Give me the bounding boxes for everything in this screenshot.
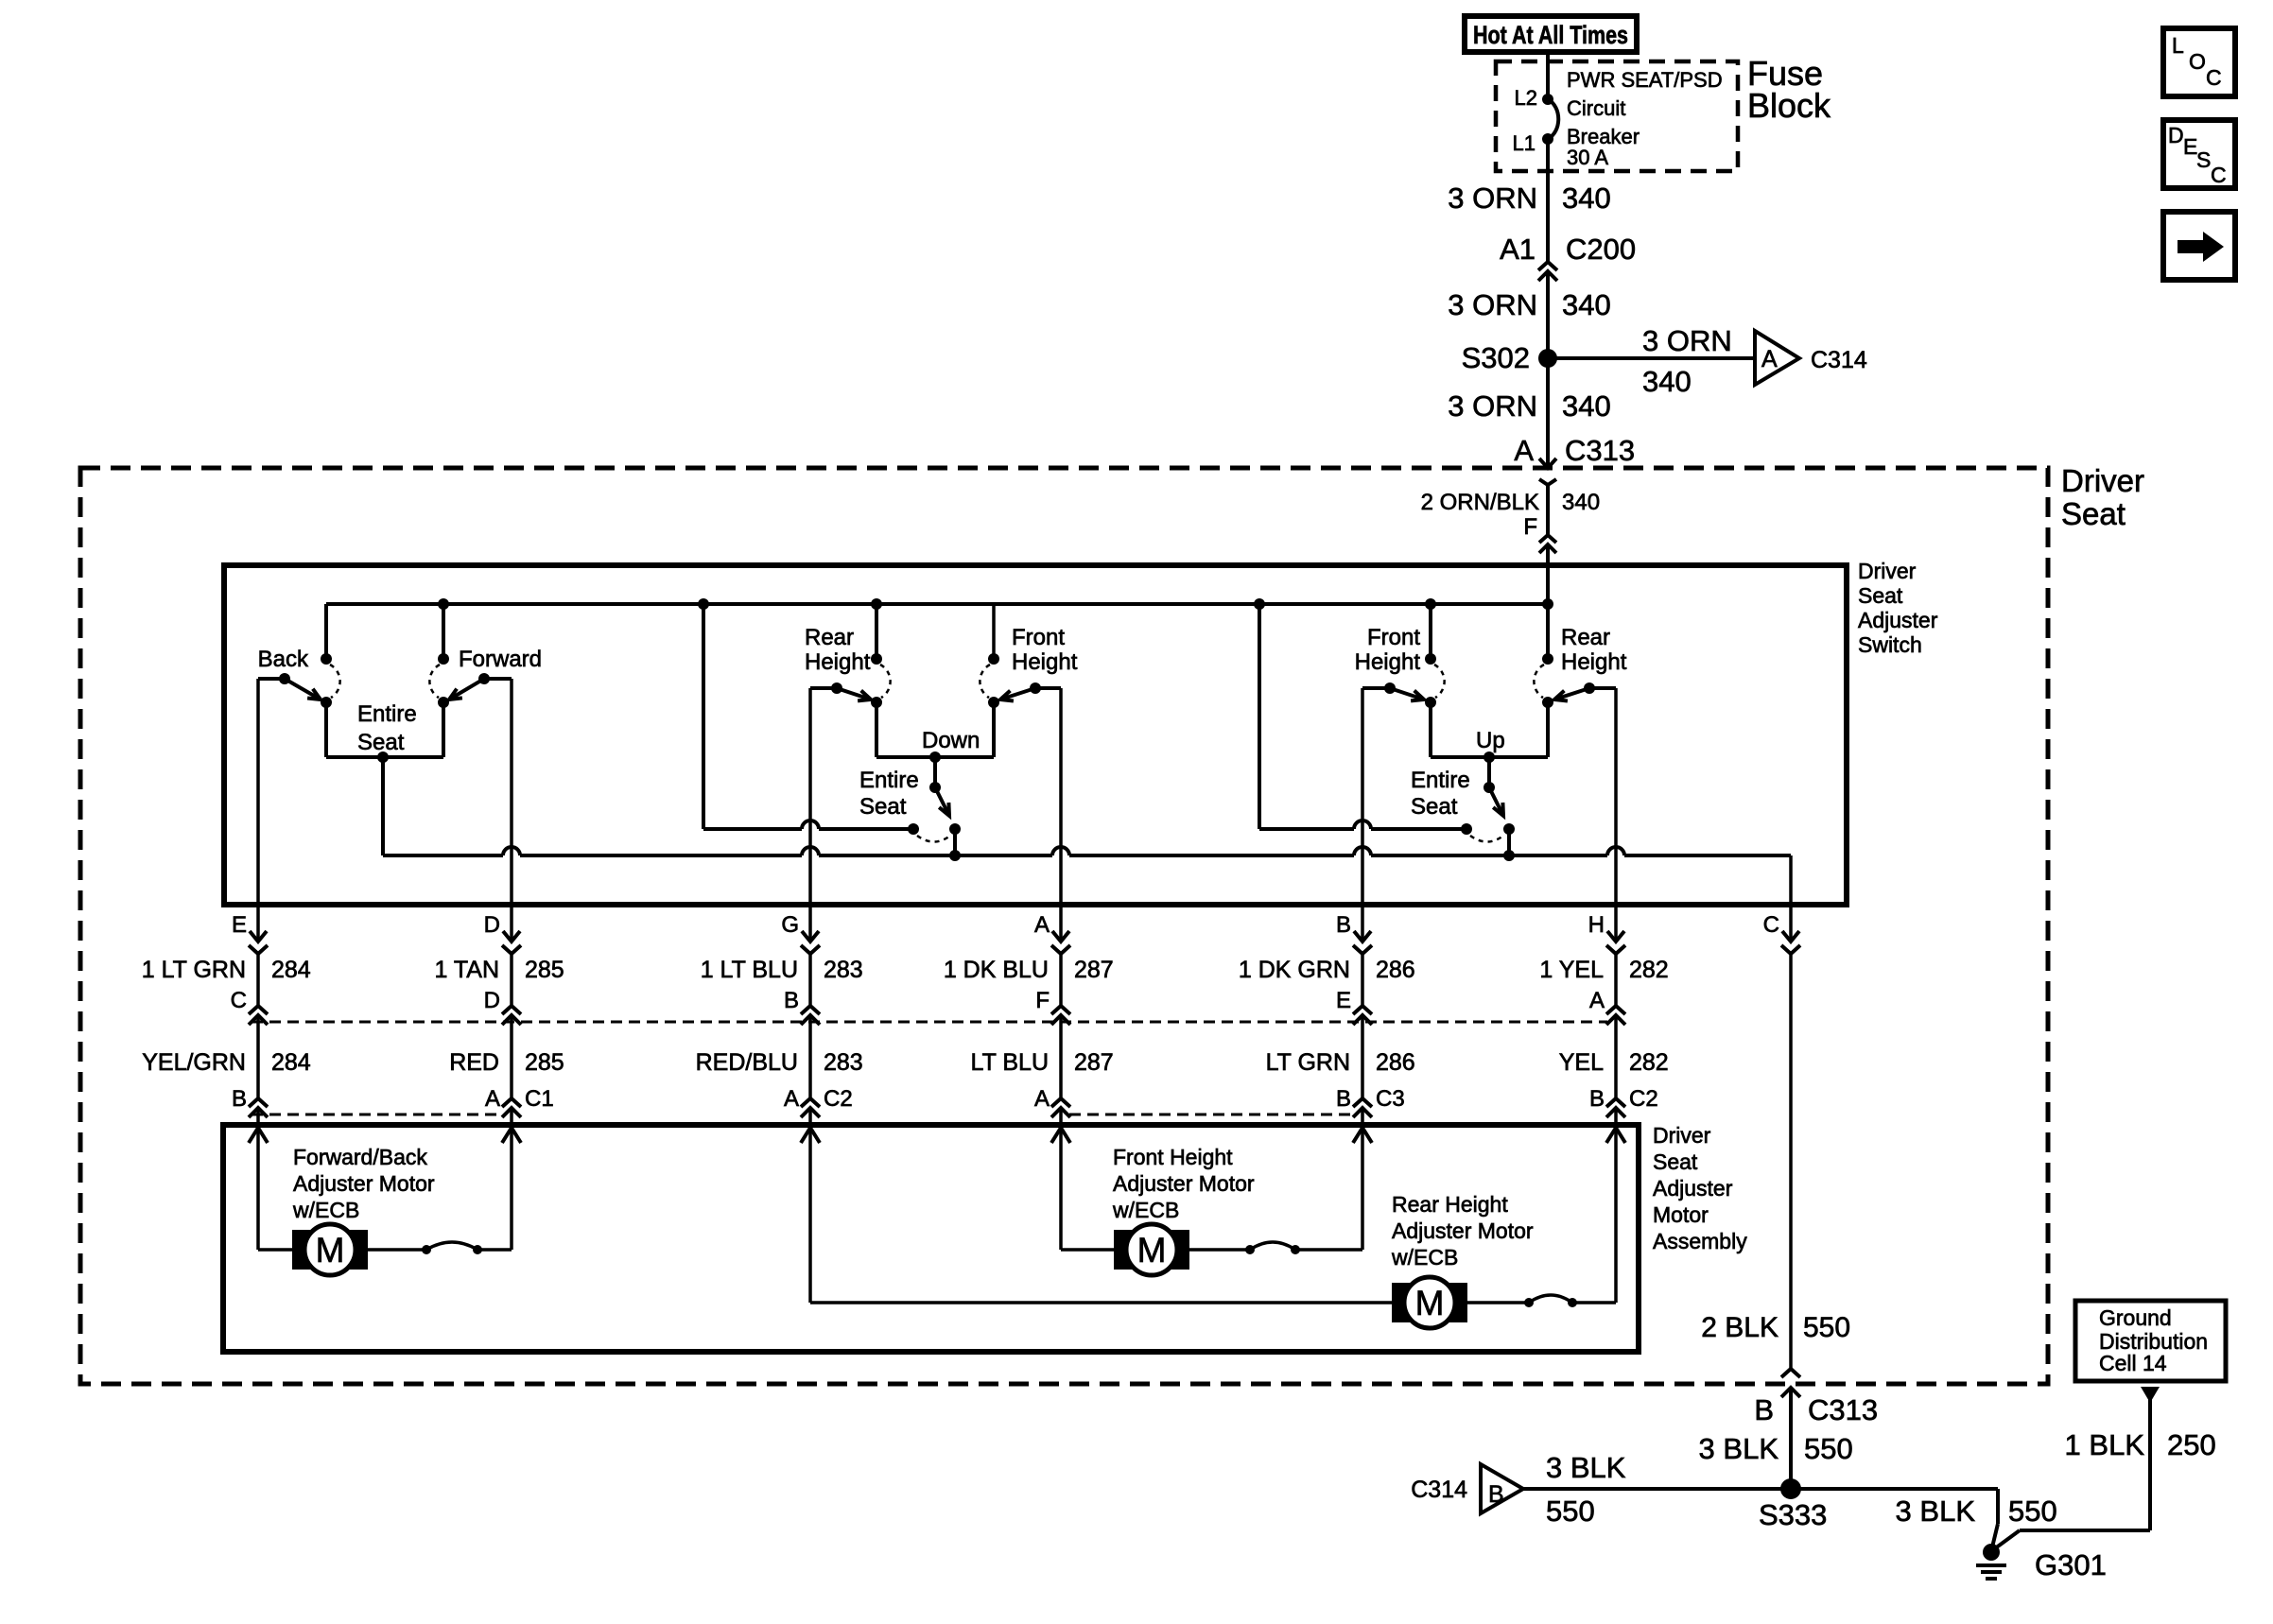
svg-text:A: A xyxy=(1589,988,1605,1013)
Forward switch upper contact xyxy=(438,653,449,665)
svg-text:Ground: Ground xyxy=(2099,1305,2172,1330)
svg-text:3 BLK: 3 BLK xyxy=(1699,1432,1779,1465)
svg-text:3 ORN: 3 ORN xyxy=(1448,389,1537,423)
svg-text:Rear: Rear xyxy=(805,625,854,650)
Rear Height lower contact (group 3) xyxy=(1542,697,1553,708)
svg-text:F: F xyxy=(1035,988,1050,1013)
motor M2 front height adjuster xyxy=(1061,1248,1114,1252)
group 2 feed drop wire xyxy=(702,604,705,829)
svg-text:340: 340 xyxy=(1562,288,1611,321)
svg-text:Assembly: Assembly xyxy=(1653,1229,1747,1253)
wire 1 BLK 250 to ground G301 xyxy=(2148,1387,2152,1530)
Ground Distribution Cell 14 box xyxy=(2075,1301,2226,1381)
svg-text:550: 550 xyxy=(1803,1312,1850,1343)
Entire Seat switch (group 3) xyxy=(1487,757,1491,787)
wire S333 to ground G301 xyxy=(1791,1487,1998,1491)
Rear Height pivot (group 3) xyxy=(1584,682,1595,694)
svg-text:B: B xyxy=(1589,1086,1605,1112)
Rear Height upper contact xyxy=(871,653,882,665)
svg-text:Block: Block xyxy=(1747,86,1831,125)
wire motor M2 to ECB xyxy=(1189,1248,1250,1252)
svg-text:286: 286 xyxy=(1376,1049,1415,1076)
wire 1 DK BLU 287 from switch pin A xyxy=(1059,688,1063,942)
svg-text:282: 282 xyxy=(1629,957,1669,983)
svg-text:340: 340 xyxy=(1562,490,1600,515)
svg-text:B: B xyxy=(1336,912,1351,938)
group 2 entire-seat contact wire with hop over G wire xyxy=(703,827,802,831)
svg-text:Driver: Driver xyxy=(2061,463,2144,498)
motor assembly in-line connector dashed line C1 xyxy=(252,1114,503,1116)
svg-text:Front Height: Front Height xyxy=(1113,1145,1233,1169)
svg-text:A1: A1 xyxy=(1500,233,1536,266)
svg-text:Height: Height xyxy=(1012,649,1078,675)
svg-text:H: H xyxy=(1588,912,1605,938)
svg-text:Cell 14: Cell 14 xyxy=(2099,1351,2167,1375)
svg-text:Down: Down xyxy=(922,728,980,753)
svg-text:A: A xyxy=(485,1086,500,1112)
wire C200 to splice S302 xyxy=(1546,271,1550,358)
LOC reference box xyxy=(2163,28,2235,96)
svg-text:Front: Front xyxy=(1012,625,1065,650)
return bus junction nodes xyxy=(949,850,961,861)
svg-text:250: 250 xyxy=(2167,1428,2216,1461)
wire pin F into switch xyxy=(1546,544,1550,659)
motor assembly entry arrow pin B xyxy=(249,1128,268,1143)
switch supply bus xyxy=(326,602,1548,606)
Rear Height pivot xyxy=(831,682,842,694)
svg-text:285: 285 xyxy=(525,1049,564,1076)
svg-text:Entire: Entire xyxy=(859,768,919,793)
svg-text:w/ECB: w/ECB xyxy=(292,1198,359,1222)
Entire Seat fixed contact (group 3) xyxy=(1461,823,1472,835)
svg-text:Height: Height xyxy=(1561,649,1627,675)
common tap wire to return bus (group 1) xyxy=(381,757,385,855)
ECB circuit breaker M2 xyxy=(1245,1245,1255,1254)
svg-text:3 BLK: 3 BLK xyxy=(1896,1494,1976,1528)
svg-text:C2: C2 xyxy=(1629,1086,1658,1112)
svg-text:283: 283 xyxy=(824,1049,863,1076)
svg-text:D: D xyxy=(484,988,500,1013)
svg-text:B: B xyxy=(1754,1393,1774,1426)
svg-text:C2: C2 xyxy=(824,1086,853,1112)
svg-text:B: B xyxy=(784,988,799,1013)
svg-text:w/ECB: w/ECB xyxy=(1112,1198,1179,1222)
svg-text:Motor: Motor xyxy=(1653,1202,1709,1227)
ECB circuit breaker M1 xyxy=(422,1245,431,1254)
svg-text:286: 286 xyxy=(1376,957,1415,983)
Front Height pivot (group 3) xyxy=(1384,682,1396,694)
Rear Height dashed travel arc xyxy=(880,665,891,698)
svg-text:287: 287 xyxy=(1074,1049,1114,1076)
Rear Height switch arm xyxy=(837,688,871,700)
svg-text:Driver: Driver xyxy=(1858,559,1917,583)
svg-text:Height: Height xyxy=(1355,649,1421,675)
Entire Seat dashed travel arc (group 3) xyxy=(1470,836,1503,842)
svg-text:550: 550 xyxy=(2008,1494,2057,1528)
svg-text:M: M xyxy=(1137,1231,1167,1270)
Rear Height upper contact (group 3) xyxy=(1542,653,1553,665)
svg-text:L1: L1 xyxy=(1513,131,1536,155)
connector C314 pin A (off-page triangle) xyxy=(1755,331,1799,385)
svg-text:A: A xyxy=(784,1086,799,1112)
connector C314 pin B (off-page triangle) xyxy=(1481,1464,1523,1513)
wire ECB M2 to pin B C3 xyxy=(1295,1248,1362,1252)
svg-text:Adjuster: Adjuster xyxy=(1653,1176,1733,1201)
Back switch lower contact xyxy=(321,697,332,708)
svg-text:284: 284 xyxy=(271,957,311,983)
wire motor M3 to ECB xyxy=(1467,1301,1529,1304)
motor assembly in-line connector dashed line C3 xyxy=(1069,1114,1354,1116)
svg-text:A: A xyxy=(1514,434,1534,467)
Front Height dashed travel arc xyxy=(980,665,990,698)
group 3 feed drop wire xyxy=(1258,604,1261,829)
svg-text:L: L xyxy=(2172,33,2184,58)
svg-text:O: O xyxy=(2189,49,2206,74)
svg-text:Rear: Rear xyxy=(1561,625,1610,650)
Forward switch arm xyxy=(449,679,484,700)
svg-text:340: 340 xyxy=(1642,365,1692,398)
wire pin A C2 to motor M3 xyxy=(810,1301,1392,1304)
arrow from Ground Distribution box xyxy=(2141,1387,2160,1403)
Back switch dashed travel arc xyxy=(330,665,340,698)
Back switch arm xyxy=(285,679,321,700)
svg-text:S333: S333 xyxy=(1759,1498,1827,1531)
svg-text:C314: C314 xyxy=(1411,1477,1467,1503)
power source box "Hot At All Times" xyxy=(1465,16,1637,52)
wire 1 TAN 285 from switch pin D xyxy=(510,679,513,942)
svg-text:Seat: Seat xyxy=(1653,1149,1698,1174)
next-page arrow box xyxy=(2163,212,2235,280)
fuse block dashed box xyxy=(1496,61,1738,171)
wire 1 YEL 282 from switch pin H xyxy=(1614,688,1618,942)
svg-text:C: C xyxy=(1763,912,1779,938)
svg-text:S302: S302 xyxy=(1462,341,1530,374)
Front Height lower contact (group 3) xyxy=(1425,697,1436,708)
svg-text:Driver: Driver xyxy=(1653,1123,1711,1148)
Driver Seat component dashed boundary xyxy=(80,468,2048,1384)
wire ECB M3 to pin B C2 xyxy=(1572,1301,1616,1304)
svg-text:C: C xyxy=(231,988,247,1013)
svg-text:A: A xyxy=(1761,346,1778,372)
svg-text:F: F xyxy=(1523,514,1537,540)
svg-text:L2: L2 xyxy=(1515,86,1537,110)
Front Height upper contact xyxy=(988,653,999,665)
svg-text:B: B xyxy=(1336,1086,1351,1112)
wire from Hot At All Times to circuit breaker xyxy=(1546,52,1550,99)
connector C313 female half below dashed line xyxy=(1539,479,1556,485)
svg-text:3 ORN: 3 ORN xyxy=(1448,288,1537,321)
svg-text:285: 285 xyxy=(525,957,564,983)
Forward switch dashed travel arc xyxy=(429,665,440,698)
svg-text:3 ORN: 3 ORN xyxy=(1642,324,1732,357)
svg-text:Circuit: Circuit xyxy=(1567,96,1625,120)
Driver Seat Adjuster Switch box xyxy=(224,565,1847,905)
svg-text:2 BLK: 2 BLK xyxy=(1701,1312,1778,1343)
motor assembly entry arrow pin A xyxy=(502,1128,521,1143)
Rear Height switch arm (group 3) xyxy=(1554,688,1589,700)
svg-text:Entire: Entire xyxy=(1411,768,1470,793)
Rear Height dashed travel arc (group 3) xyxy=(1534,665,1544,698)
Down common bar (group 2) xyxy=(876,755,994,759)
svg-text:C200: C200 xyxy=(1566,233,1636,266)
svg-text:1 LT BLU: 1 LT BLU xyxy=(701,957,798,983)
svg-text:Adjuster: Adjuster xyxy=(1858,608,1938,632)
motor assembly entry arrow pin A xyxy=(801,1128,820,1143)
svg-text:1 DK GRN: 1 DK GRN xyxy=(1239,957,1350,983)
svg-text:550: 550 xyxy=(1804,1432,1853,1465)
Front Height lower contact xyxy=(988,697,999,708)
Entire Seat dashed travel arc (group 2) xyxy=(917,836,950,842)
svg-text:340: 340 xyxy=(1562,181,1611,215)
svg-text:C: C xyxy=(2206,65,2222,90)
svg-text:G: G xyxy=(781,912,799,938)
connector C313 pin B xyxy=(1781,1369,1800,1377)
Entire Seat switch (group 2) xyxy=(933,757,937,787)
svg-text:Height: Height xyxy=(805,649,871,675)
Up common bar (group 3) xyxy=(1431,755,1548,759)
svg-text:Entire: Entire xyxy=(357,701,417,727)
wire C314 to S333 xyxy=(1523,1487,1791,1491)
motor assembly entry arrow pin A xyxy=(1051,1128,1070,1143)
Back switch feed wire xyxy=(324,604,328,659)
svg-text:C314: C314 xyxy=(1811,347,1867,373)
seat harness in-line connector dashed line xyxy=(252,1021,1607,1024)
svg-text:284: 284 xyxy=(271,1049,311,1076)
svg-text:Seat: Seat xyxy=(2061,496,2126,531)
Entire Seat fixed contact (group 2) xyxy=(908,823,919,835)
Front Height switch feed wire (group 3) xyxy=(1429,604,1432,659)
wire 1 LT GRN 284 from switch pin E xyxy=(256,679,260,942)
svg-text:1 YEL: 1 YEL xyxy=(1539,957,1604,983)
wire ECB M1 to pin A C1 xyxy=(477,1248,512,1252)
svg-text:M: M xyxy=(1415,1284,1445,1322)
splice S333 xyxy=(1780,1478,1801,1499)
ECB circuit breaker M3 xyxy=(1524,1298,1534,1307)
motor M1 forward/back adjuster xyxy=(258,1248,292,1252)
svg-text:C313: C313 xyxy=(1808,1393,1878,1426)
svg-text:G301: G301 xyxy=(2035,1548,2107,1581)
bus junction nodes xyxy=(438,598,449,610)
svg-text:1 BLK: 1 BLK xyxy=(2065,1428,2145,1461)
Forward switch feed wire xyxy=(442,604,445,659)
group 3 entire-seat contact wire with hop over B wire xyxy=(1259,827,1354,831)
ground G301 xyxy=(1983,1544,2000,1561)
svg-text:B: B xyxy=(1488,1481,1504,1508)
svg-text:Forward/Back: Forward/Back xyxy=(293,1145,427,1169)
Front Height dashed travel arc (group 3) xyxy=(1434,665,1445,698)
Rear Height lower contact xyxy=(871,697,882,708)
wire C313 to switch pin F xyxy=(1546,485,1550,535)
motor M3 rear height adjuster xyxy=(1392,1283,1467,1322)
svg-text:A: A xyxy=(1034,912,1050,938)
motor assembly entry arrow pin B xyxy=(1606,1128,1625,1143)
Rear Height switch feed wire xyxy=(875,604,878,659)
svg-text:C313: C313 xyxy=(1565,434,1635,467)
svg-text:LT GRN: LT GRN xyxy=(1266,1049,1350,1076)
svg-text:C3: C3 xyxy=(1376,1086,1405,1112)
svg-text:287: 287 xyxy=(1074,957,1114,983)
Forward switch pivot xyxy=(478,673,490,684)
svg-text:B: B xyxy=(232,1086,247,1112)
svg-text:PWR SEAT/PSD: PWR SEAT/PSD xyxy=(1567,68,1723,92)
svg-text:D: D xyxy=(2168,123,2184,147)
branch wire S302 to C314 pin A xyxy=(1548,356,1755,360)
svg-text:1 DK BLU: 1 DK BLU xyxy=(944,957,1049,983)
Front Height switch arm xyxy=(1000,688,1035,700)
Back switch upper contact xyxy=(321,653,332,665)
wire 2 BLK 550 pin C from return bus xyxy=(1789,855,1793,942)
svg-text:Back: Back xyxy=(258,647,309,672)
svg-text:E: E xyxy=(1336,988,1351,1013)
svg-text:w/ECB: w/ECB xyxy=(1391,1245,1458,1270)
svg-text:550: 550 xyxy=(1546,1494,1595,1528)
svg-text:RED/BLU: RED/BLU xyxy=(696,1049,798,1076)
svg-text:Seat: Seat xyxy=(1411,794,1458,820)
svg-text:282: 282 xyxy=(1629,1049,1669,1076)
switch return bus xyxy=(383,854,503,857)
svg-text:RED: RED xyxy=(449,1049,499,1076)
wire motor M1 to ECB xyxy=(368,1248,426,1252)
svg-text:Adjuster Motor: Adjuster Motor xyxy=(1113,1171,1255,1196)
svg-text:YEL: YEL xyxy=(1559,1049,1604,1076)
svg-text:C1: C1 xyxy=(525,1086,554,1112)
Forward switch lower contact xyxy=(438,697,449,708)
svg-text:Front: Front xyxy=(1367,625,1420,650)
svg-text:M: M xyxy=(316,1231,345,1270)
svg-text:1 LT GRN: 1 LT GRN xyxy=(142,957,246,983)
Front Height pivot xyxy=(1030,682,1041,694)
svg-text:Seat: Seat xyxy=(859,794,907,820)
Front Height upper contact (group 3) xyxy=(1425,653,1436,665)
svg-text:Hot At All Times: Hot At All Times xyxy=(1473,21,1628,49)
Driver Seat Adjuster Motor Assembly box xyxy=(223,1125,1639,1352)
svg-text:Seat: Seat xyxy=(357,730,405,755)
svg-text:3 BLK: 3 BLK xyxy=(1546,1451,1626,1484)
Entire Seat common bar (group 1) xyxy=(326,755,443,759)
wire 1 DK GRN 286 from switch pin B xyxy=(1361,688,1364,942)
svg-text:Adjuster Motor: Adjuster Motor xyxy=(1392,1218,1534,1243)
wire 1 LT BLU 283 from switch pin G xyxy=(808,688,812,942)
Front Height switch arm (group 3) xyxy=(1390,688,1424,700)
svg-text:3 ORN: 3 ORN xyxy=(1448,181,1537,215)
svg-text:1 TAN: 1 TAN xyxy=(434,957,499,983)
svg-text:A: A xyxy=(1034,1086,1050,1112)
svg-text:LT BLU: LT BLU xyxy=(971,1049,1049,1076)
svg-text:YEL/GRN: YEL/GRN xyxy=(142,1049,246,1076)
svg-text:30 A: 30 A xyxy=(1567,146,1608,169)
Front Height switch feed wire xyxy=(992,604,996,659)
svg-text:Rear Height: Rear Height xyxy=(1392,1192,1508,1217)
wire breaker to connector C200 xyxy=(1546,139,1550,261)
wire S302 to connector C313 xyxy=(1546,358,1550,468)
svg-text:2 ORN/BLK: 2 ORN/BLK xyxy=(1421,490,1539,515)
svg-text:D: D xyxy=(484,912,500,938)
svg-text:Seat: Seat xyxy=(1858,583,1903,608)
svg-text:E: E xyxy=(232,912,247,938)
DESC reference box xyxy=(2163,120,2235,188)
svg-text:Up: Up xyxy=(1476,728,1505,753)
motor assembly entry arrow pin B xyxy=(1353,1128,1372,1143)
svg-text:S: S xyxy=(2196,147,2211,172)
Back switch pivot xyxy=(279,673,290,684)
Rear Height switch feed wire (group 3) xyxy=(1546,604,1550,659)
svg-text:340: 340 xyxy=(1562,389,1611,423)
svg-text:Adjuster Motor: Adjuster Motor xyxy=(293,1171,435,1196)
svg-text:283: 283 xyxy=(824,957,863,983)
svg-text:Switch: Switch xyxy=(1858,632,1922,657)
svg-text:Forward: Forward xyxy=(459,647,542,672)
circuit breaker PWR SEAT/PSD 30 A xyxy=(1548,99,1558,139)
svg-text:C: C xyxy=(2211,163,2227,187)
